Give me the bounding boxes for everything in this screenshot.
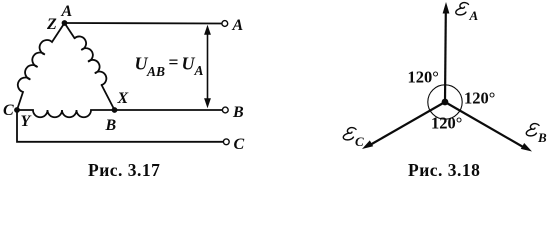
svg-text:A: A: [232, 17, 244, 34]
svg-text:Рис. 3.17: Рис. 3.17: [88, 160, 160, 180]
svg-text:Y: Y: [21, 113, 32, 130]
svg-text:Z: Z: [46, 16, 57, 33]
svg-text:C: C: [3, 102, 14, 119]
svg-text:120°: 120°: [464, 89, 495, 108]
svg-text:X: X: [117, 90, 129, 107]
svg-text:B: B: [537, 130, 547, 145]
svg-text:Рис. 3.18: Рис. 3.18: [408, 160, 480, 180]
svg-text:120°: 120°: [408, 68, 439, 87]
svg-text:120°: 120°: [431, 114, 462, 133]
svg-text:=: =: [169, 52, 179, 72]
svg-text:C: C: [355, 134, 364, 149]
svg-text:A: A: [469, 8, 479, 23]
svg-text:U: U: [182, 54, 196, 74]
svg-text:AB: AB: [146, 64, 165, 79]
svg-text:B: B: [105, 117, 117, 134]
svg-text:A: A: [194, 63, 204, 78]
svg-text:A: A: [61, 3, 73, 20]
svg-text:C: C: [234, 136, 245, 153]
svg-text:B: B: [232, 104, 244, 121]
